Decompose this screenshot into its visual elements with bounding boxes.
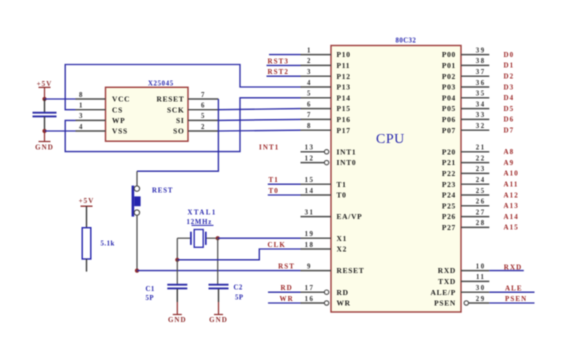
svg-text:12: 12: [305, 155, 315, 162]
svg-text:32: 32: [476, 123, 486, 130]
svg-text:19: 19: [305, 231, 315, 238]
svg-text:33: 33: [476, 112, 486, 119]
wire net RST3 at CPU P11: [267, 64, 301, 66]
U1 pin 36 P03 (right): [442, 80, 489, 92]
svg-text:P12: P12: [337, 72, 351, 81]
U1 pin 10 RXD (right): [438, 263, 490, 275]
svg-text:27: 27: [476, 209, 486, 216]
U1 pin 30 ALE/P (right): [430, 285, 489, 297]
svg-text:C1: C1: [146, 286, 155, 293]
svg-text:38: 38: [476, 58, 486, 65]
svg-text:T0: T0: [337, 191, 347, 200]
svg-text:ALE/P: ALE/P: [430, 288, 456, 297]
wire net RD at CPU RD: [268, 291, 301, 293]
U1 pin 8 P17 (left): [301, 123, 351, 135]
svg-text:X2: X2: [337, 245, 348, 254]
wire junction to U2 VSS pin 4: [45, 130, 76, 132]
svg-text:31: 31: [305, 209, 315, 216]
wire C2 to ground: [218, 289, 220, 302]
svg-text:P27: P27: [442, 223, 456, 232]
wire net X1: crystal to CPU X1 pin 19: [218, 237, 301, 239]
svg-text:VSS: VSS: [112, 127, 128, 136]
svg-text:T0: T0: [269, 187, 279, 195]
svg-text:WP: WP: [112, 116, 125, 125]
svg-text:11: 11: [476, 274, 485, 281]
svg-text:P21: P21: [442, 158, 456, 167]
svg-text:1: 1: [79, 103, 84, 110]
svg-text:A8: A8: [504, 148, 515, 156]
svg-text:39: 39: [476, 47, 486, 54]
wire net RXD: [489, 270, 524, 272]
svg-text:INT1: INT1: [337, 147, 357, 156]
svg-text:8: 8: [307, 123, 312, 130]
U1 pin 12 INT0 (left): [301, 155, 357, 167]
svg-text:18: 18: [305, 242, 315, 249]
svg-text:XTAL1: XTAL1: [188, 210, 217, 217]
crystal Y1 symbol: [191, 230, 206, 248]
capacitor C1: [167, 285, 187, 289]
U1 pin 23 P22 (right): [442, 166, 489, 178]
U1 pin 19 X1 (left): [301, 231, 348, 243]
svg-text:P01: P01: [442, 61, 456, 70]
svg-text:P06: P06: [442, 115, 456, 124]
U1 pin 1 P10 (left): [301, 47, 351, 59]
svg-text:INT1: INT1: [259, 144, 279, 152]
svg-text:30: 30: [476, 285, 486, 292]
U2 pin 1 CS (left): [76, 103, 123, 115]
wire switch bottom to RST rail: [136, 215, 138, 270]
svg-text:SCK: SCK: [167, 105, 184, 114]
U1 pin 27 P26 (right): [442, 209, 489, 221]
svg-text:26: 26: [476, 199, 486, 206]
svg-text:5: 5: [201, 113, 206, 120]
U1 pin 7 P16 (left): [301, 112, 351, 124]
U1 pin 21 P20 (right): [442, 145, 489, 157]
U1 pin 13 INT1 (left): [301, 145, 357, 157]
wire net PSEN: [489, 302, 534, 304]
wire resistor bottom lead: [86, 259, 88, 272]
svg-text:21: 21: [476, 145, 486, 152]
svg-text:SO: SO: [173, 127, 184, 136]
U1 pin 4 P13 (left): [301, 80, 351, 92]
svg-text:28: 28: [476, 220, 486, 227]
svg-text:TXD: TXD: [438, 277, 456, 286]
svg-text:6: 6: [201, 103, 206, 110]
svg-text:GND: GND: [168, 316, 187, 324]
svg-text:RD: RD: [337, 288, 349, 297]
svg-text:5.1k: 5.1k: [101, 241, 115, 248]
svg-text:13: 13: [305, 145, 315, 152]
svg-text:24: 24: [476, 177, 486, 184]
svg-text:P04: P04: [442, 93, 456, 102]
node junction +5V / VCC: [42, 97, 46, 101]
svg-text:35: 35: [476, 91, 486, 98]
svg-text:D3: D3: [504, 83, 515, 91]
svg-text:29: 29: [476, 296, 486, 303]
svg-text:PSEN: PSEN: [434, 299, 456, 308]
U1 pin 18 X2 (left): [301, 242, 348, 254]
svg-text:GND: GND: [35, 144, 54, 152]
svg-text:CLK: CLK: [268, 241, 286, 249]
wire net X2: junction right then up to CPU X2 pin 18: [177, 249, 300, 260]
svg-text:9: 9: [307, 263, 312, 270]
svg-text:WR: WR: [280, 295, 294, 303]
svg-text:A11: A11: [504, 181, 519, 189]
U1 pin 17 RD (left): [301, 285, 349, 297]
svg-text:D4: D4: [504, 94, 515, 102]
svg-text:P11: P11: [337, 61, 351, 70]
wire stub net at CPU pin 1: [269, 54, 301, 56]
svg-text:D7: D7: [504, 127, 515, 135]
svg-text:X1: X1: [337, 234, 348, 243]
wire net CS: U2 pin1 CS up over to CPU P13: [65, 65, 300, 110]
U1 pin 31 EA/VP (left): [301, 209, 363, 221]
svg-text:RXD: RXD: [504, 263, 522, 271]
U2 pin 6 SCK (right): [167, 103, 218, 115]
wire +5V junction to U2 VCC pin 8: [45, 98, 76, 100]
node junction RST rail: [135, 269, 139, 273]
svg-text:3: 3: [307, 69, 312, 76]
wire net T1 at CPU T1: [268, 183, 301, 185]
svg-text:P15: P15: [337, 104, 351, 113]
wire crystal left lead: [177, 237, 190, 239]
svg-text:5P: 5P: [146, 295, 155, 302]
wire net RST2 at CPU P12: [267, 75, 301, 77]
wire crystal right lead: [207, 237, 218, 239]
resistor R1 5.1k: [82, 228, 91, 259]
svg-text:P00: P00: [442, 50, 456, 59]
U2 pin 3 WP (left): [76, 113, 126, 125]
wire net SO: U2 pin2 to CPU P17: [218, 129, 300, 132]
wire net SI: U2 pin5 to CPU P16: [218, 119, 300, 120]
node junction crystal left / C1 / X2 net: [175, 258, 179, 262]
svg-text:RST: RST: [278, 263, 295, 271]
svg-text:8: 8: [79, 92, 84, 99]
svg-text:80C32: 80C32: [396, 38, 417, 45]
svg-text:A12: A12: [504, 191, 519, 199]
ground GND (C1): [168, 315, 187, 325]
svg-text:15: 15: [305, 177, 315, 184]
capacitor C (decoupling, top-left): [33, 113, 57, 117]
ground GND (top left): [35, 131, 54, 152]
svg-text:7: 7: [307, 112, 312, 119]
svg-text:A10: A10: [504, 170, 519, 178]
svg-text:36: 36: [476, 80, 486, 87]
U2 pin 4 VSS (left): [76, 124, 128, 136]
U1 pin 2 P11 (left): [301, 58, 351, 70]
svg-text:P22: P22: [442, 169, 456, 178]
U1 pin 11 TXD (right): [438, 274, 489, 286]
wire net WP: U2 pin3 WP down around to CPU P14: [65, 98, 300, 152]
svg-text:PSEN: PSEN: [505, 295, 527, 303]
svg-text:RST2: RST2: [268, 68, 290, 76]
U1 pin 15 T1 (left): [301, 177, 347, 189]
svg-text:CPU: CPU: [376, 132, 405, 147]
svg-text:ALE: ALE: [505, 285, 523, 293]
svg-text:25: 25: [476, 188, 486, 195]
svg-text:P10: P10: [337, 50, 351, 59]
svg-text:6: 6: [307, 101, 312, 108]
node junction crystal right / X1 / C2: [216, 236, 220, 240]
svg-text:1: 1: [307, 47, 312, 54]
svg-text:P23: P23: [442, 180, 456, 189]
wire net T0 at CPU T0: [268, 194, 301, 196]
svg-text:2: 2: [307, 58, 312, 65]
svg-text:REST: REST: [152, 187, 173, 194]
U1 pin 6 P15 (left): [301, 101, 351, 113]
wire crystal left down to junction: [176, 238, 178, 260]
svg-text:D5: D5: [504, 105, 515, 113]
svg-text:WR: WR: [337, 299, 351, 308]
power +5V (resistor top): [79, 197, 95, 206]
svg-text:P07: P07: [442, 126, 456, 135]
ground GND (C2): [209, 315, 228, 325]
svg-text:INT0: INT0: [337, 158, 357, 167]
U1 pin 24 P23 (right): [442, 177, 489, 189]
svg-text:RESET: RESET: [157, 95, 185, 104]
svg-text:RST3: RST3: [268, 57, 290, 65]
svg-text:A13: A13: [504, 202, 519, 210]
wire net RST rail to CPU RESET pin 9: [137, 270, 301, 272]
svg-text:37: 37: [476, 69, 486, 76]
svg-text:7: 7: [201, 92, 206, 99]
U1 pin 26 P25 (right): [442, 199, 489, 211]
U1 pin 29 PSEN (right): [434, 296, 489, 308]
U1 pin 38 P01 (right): [442, 58, 489, 70]
svg-text:P25: P25: [442, 201, 456, 210]
wire net ALE: [489, 291, 534, 293]
U1 pin 22 P21 (right): [442, 155, 489, 167]
svg-text:23: 23: [476, 166, 486, 173]
power +5V (top left): [37, 80, 53, 99]
wire net WR at CPU WR: [268, 302, 301, 304]
svg-text:16: 16: [305, 296, 315, 303]
svg-text:RXD: RXD: [438, 266, 456, 275]
svg-text:RESET: RESET: [337, 266, 365, 275]
chip U2 body: X25045 watchdog EEPROM: [106, 87, 189, 141]
U2 pin 7 RESET (right): [157, 92, 219, 104]
svg-text:5P: 5P: [235, 295, 244, 302]
svg-text:5: 5: [307, 91, 312, 98]
svg-text:10: 10: [476, 263, 486, 270]
svg-text:CS: CS: [112, 105, 123, 114]
svg-text:EA/VP: EA/VP: [337, 212, 363, 221]
svg-text:P16: P16: [337, 115, 351, 124]
svg-text:X25045: X25045: [148, 80, 174, 87]
wire net SCK: U2 pin6 to CPU P15: [218, 109, 300, 110]
svg-text:GND: GND: [209, 316, 228, 324]
U1 pin 35 P04 (right): [442, 91, 489, 103]
svg-text:C2: C2: [234, 284, 243, 291]
svg-text:P24: P24: [442, 191, 456, 200]
switch S1 pushbutton REST: [132, 186, 141, 217]
svg-text:D2: D2: [504, 73, 515, 81]
svg-text:T1: T1: [337, 180, 347, 189]
wire junction down to capacitor: [44, 99, 46, 112]
svg-text:A14: A14: [504, 213, 519, 221]
wire +5V to resistor: [86, 206, 88, 228]
U1 pin 3 P12 (left): [301, 69, 351, 81]
U1 pin 33 P06 (right): [442, 112, 489, 124]
IC U1: CPU 80C32 microcontroller: [331, 46, 461, 313]
U1 pin 14 T0 (left): [301, 188, 347, 200]
svg-text:22: 22: [476, 155, 486, 162]
wire crystal right down to C2: [217, 238, 219, 284]
svg-text:VCC: VCC: [112, 95, 130, 104]
svg-text:+5V: +5V: [79, 197, 95, 205]
svg-text:D6: D6: [504, 116, 515, 124]
svg-text:14: 14: [305, 188, 315, 195]
svg-text:34: 34: [476, 101, 486, 108]
U1 pin 28 P27 (right): [442, 220, 489, 232]
svg-text:RD: RD: [281, 284, 293, 292]
svg-text:D1: D1: [504, 62, 515, 70]
svg-text:A9: A9: [504, 159, 515, 167]
svg-text:P02: P02: [442, 72, 456, 81]
svg-text:T1: T1: [269, 176, 279, 184]
svg-text:4: 4: [79, 124, 84, 131]
U1 pin 37 P02 (right): [442, 69, 489, 81]
U1 pin 25 P24 (right): [442, 188, 489, 200]
U1 pin 16 WR (left): [301, 296, 351, 308]
wire net RESET: U2 pin7 down to pushbutton: [137, 99, 218, 171]
svg-text:P05: P05: [442, 104, 456, 113]
svg-text:2: 2: [201, 124, 206, 131]
svg-text:P03: P03: [442, 83, 456, 92]
U1 pin 32 P07 (right): [442, 123, 489, 135]
U2 pin 2 SO (right): [173, 124, 218, 136]
svg-text:SI: SI: [176, 116, 185, 125]
wire junction down to C1: [176, 260, 178, 285]
svg-text:P13: P13: [337, 83, 351, 92]
wire C1 to ground: [176, 289, 178, 302]
svg-text:P20: P20: [442, 147, 456, 156]
svg-text:3: 3: [79, 113, 84, 120]
wire capacitor to lower junction: [44, 117, 46, 131]
svg-text:P26: P26: [442, 212, 456, 221]
svg-text:A15: A15: [504, 224, 519, 232]
svg-text:4: 4: [307, 80, 312, 87]
U1 pin 9 RESET (left): [301, 263, 365, 275]
U1 pin 5 P14 (left): [301, 91, 351, 103]
svg-text:P17: P17: [337, 126, 351, 135]
U2 pin 8 VCC (left): [76, 92, 131, 104]
svg-text:17: 17: [305, 285, 315, 292]
U2 pin 5 SI (right): [176, 113, 218, 125]
U1 pin 39 P00 (right): [442, 47, 489, 59]
svg-text:P14: P14: [337, 93, 351, 102]
node junction VSS / GND: [42, 129, 46, 133]
svg-text:D0: D0: [504, 51, 515, 59]
capacitor C2: [209, 285, 229, 289]
U1 pin 34 P05 (right): [442, 101, 489, 113]
